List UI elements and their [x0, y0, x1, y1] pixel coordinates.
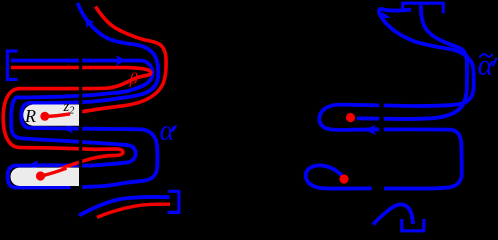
svg-text:α: α: [478, 49, 495, 82]
bottom-right red curve to bracket: [97, 204, 170, 217]
arrowhead (blue) near top hairpin pointing up-left: [382, 12, 391, 23]
black gap in bottom blue line (left figure): [71, 186, 82, 192]
white region R (stadium): [23, 105, 79, 126]
red segment from bottom dot: [42, 168, 67, 176]
arrow (blue) left-pointing on middle line: [364, 125, 376, 135]
white bottom stadium region: [11, 168, 80, 186]
svg-text:β: β: [129, 71, 138, 88]
curve alpha-prime (blue) main winding path: [8, 3, 159, 188]
red segment from z2 dot (over cut): [46, 114, 70, 117]
puncture red dot in bottom stadium: [36, 171, 45, 180]
bottom-right blue curve to bracket: [79, 197, 170, 216]
arrowhead (blue) top end of alpha-prime pointing up-left: [85, 17, 95, 28]
puncture red dot lower (right fig): [339, 174, 348, 183]
curve alpha-tilde strand from bracket to first puncture: [357, 5, 467, 119]
bottom arc into bottom bracket (blue): [373, 204, 413, 224]
curve alpha-tilde main spiral strand to second puncture: [306, 9, 474, 189]
left bracket [ (blue): [7, 51, 17, 80]
arrow (blue) left-pointing on line above bottom stadium: [27, 160, 39, 170]
bottom bracket (blue): [402, 219, 424, 231]
right bracket ] (blue): [168, 191, 179, 212]
black cut line (right figure): [379, 99, 384, 232]
arrow (blue) left-pointing on line under region R: [62, 123, 74, 133]
puncture red dot upper (right fig): [346, 113, 355, 122]
top bracket (blue): [403, 3, 444, 13]
curve beta (red): bracket line, hairpin, sweep back west, far-left cap, to bottom puncture: [3, 68, 151, 176]
arrow (blue) right-pointing on top bracket line: [116, 55, 127, 65]
curve (red) from puncture z2 rising east to outer right turn and top diagonal: [46, 7, 166, 117]
black cut line (left figure) crossing the curves: [79, 50, 82, 191]
puncture z2 red dot in region R: [40, 112, 49, 121]
black gap in long lower line (right figure): [372, 185, 384, 194]
svg-text:R: R: [24, 106, 36, 126]
